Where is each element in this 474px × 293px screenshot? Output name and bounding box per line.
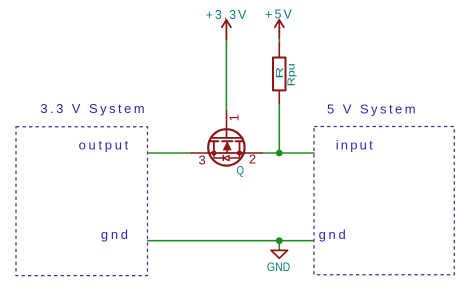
ground symbol triangle [271,250,287,258]
transistor Q pin 3 (left) [191,152,208,154]
power symbol +3.3V arrow [222,20,231,40]
label +5V [265,8,294,22]
svg-text:1: 1 [227,114,242,121]
pin number 1 (rotated) [227,114,242,121]
svg-text:GND: GND [267,260,291,274]
svg-text:gnd: gnd [101,227,131,242]
wire output to Q pin3 [148,152,191,154]
label output [79,138,131,153]
wire Q pin2 to input [262,152,314,154]
junction node at gnd [276,237,283,244]
transistor Q channel line (S-D) [208,152,245,154]
label +3.3V [206,8,249,22]
transistor Q1 body circle [208,129,244,165]
transistor Q channel segments [210,140,243,142]
junction node at R / pin2 [276,150,283,157]
resistor R pin bottom [278,90,280,103]
label Rpu (value, rotated) [286,63,298,86]
svg-text:+3.3V: +3.3V [206,8,249,22]
label 5 V System [327,101,418,116]
transistor Q substrate arrow [223,141,232,153]
svg-text:3: 3 [198,152,205,167]
label R (reference, rotated) [274,66,286,78]
svg-text:2: 2 [249,151,256,166]
svg-text:+5V: +5V [265,8,294,22]
box 5V system (dashed) [314,127,454,275]
wire +5V to R [278,38,280,47]
svg-text:input: input [336,138,375,153]
label gnd (right) [319,227,349,242]
transistor Q internal junction dots [211,150,242,155]
label GND [267,260,291,274]
svg-text:R: R [274,66,286,78]
pin number 2 [249,151,256,166]
wire gnd bus [148,240,314,242]
transistor Q pin 1 (top) [226,111,228,128]
svg-text:gnd: gnd [319,227,349,242]
wire R to node [278,103,280,153]
label gnd (left) [101,227,131,242]
transistor Q source/drain verticals [214,141,240,153]
transistor Q gate bar [211,137,243,139]
pin number 3 [198,152,205,167]
label Q (reference) [236,165,244,177]
label input [336,138,375,153]
svg-text:5 V System: 5 V System [327,101,418,116]
transistor Q gate lead [226,129,228,139]
resistor R pin top [278,43,280,58]
svg-text:output: output [79,138,131,153]
power symbol +5V arrow [275,20,284,38]
box 3.3V system (dashed) [16,127,148,276]
svg-text:3.3 V System: 3.3 V System [40,101,147,116]
wire +3.3V to Q pin1 [225,39,227,111]
label 3.3 V System [40,101,147,116]
svg-text:Rpu: Rpu [286,63,298,86]
transistor Q pin 2 (right) [245,152,262,154]
svg-text:Q: Q [236,165,244,177]
transistor Q body diode [214,153,240,161]
wire gnd stub [278,241,280,250]
resistor R body [273,58,286,91]
